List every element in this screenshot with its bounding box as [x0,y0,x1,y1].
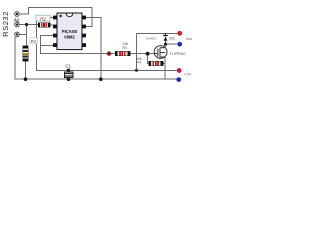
svg-text:T1 IRF510: T1 IRF510 [169,52,185,56]
svg-text:R4: R4 [136,61,141,65]
svg-text:C1: C1 [65,63,71,68]
svg-text:08M2: 08M2 [64,34,75,39]
svg-text:R2: R2 [40,16,46,21]
svg-text:R3: R3 [122,46,127,50]
svg-text:1N4007: 1N4007 [146,36,157,40]
svg-text:A1: A1 [14,17,20,22]
svg-text:4.5V: 4.5V [184,73,192,77]
svg-text:R1: R1 [31,39,37,44]
svg-text:PICAXE: PICAXE [62,29,78,34]
svg-text:Max: Max [186,37,193,41]
svg-text:RS232: RS232 [1,11,10,37]
svg-text:D1: D1 [169,35,175,40]
